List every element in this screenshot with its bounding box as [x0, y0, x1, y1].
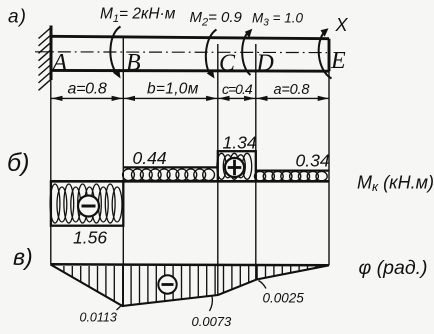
node C section line [217, 44, 219, 295]
Mk 0.44 block hatching [123, 169, 215, 181]
Mk 1.34 block outline [218, 151, 256, 181]
dim arrows at D [244, 96, 255, 101]
node A section line [50, 80, 52, 265]
phi zero line [51, 264, 330, 265]
svg-text:a=0.8: a=0.8 [274, 82, 310, 98]
svg-text:б): б) [7, 149, 29, 177]
dimension line [51, 97, 329, 99]
svg-text:M1= 2кН·м: M1= 2кН·м [100, 6, 176, 26]
svg-text:0.44: 0.44 [133, 148, 167, 168]
Mk 0.34 block top [256, 169, 329, 171]
plus sign circle in 1.34 block [225, 158, 244, 177]
dim arrows at B [112, 96, 123, 101]
dim arrow at E [318, 96, 329, 101]
moment M1 arc [110, 27, 120, 73]
Mk zero line [51, 180, 330, 183]
torque arrow at E toward X [319, 32, 332, 79]
dim arrows at C [206, 96, 217, 101]
svg-text:0.0073: 0.0073 [192, 314, 233, 329]
node D section line [255, 44, 257, 280]
dim arrows at A [52, 96, 63, 101]
svg-text:B: B [126, 50, 141, 76]
node B section line [122, 37, 124, 306]
svg-text:E: E [330, 48, 346, 74]
minus sign circle in phi diagram [158, 275, 176, 293]
leader 0.0073 [210, 296, 213, 311]
centerline of shaft [35, 51, 327, 54]
svg-text:а): а) [8, 7, 27, 28]
shaft outline [51, 36, 329, 38]
wall hatching [39, 28, 52, 91]
svg-text:0.0025: 0.0025 [263, 291, 305, 306]
svg-text:0.34: 0.34 [296, 151, 330, 171]
node E section line [328, 71, 330, 265]
leader 0.0025 [259, 281, 267, 289]
svg-text:1.56: 1.56 [73, 228, 107, 248]
Mk 1.34 block hatching [217, 153, 252, 179]
svg-text:D: D [256, 51, 274, 77]
minus sign circle in 1.56 box [78, 196, 99, 217]
phi outline polyline [51, 265, 330, 307]
svg-text:X: X [335, 15, 349, 35]
svg-text:0.0113: 0.0113 [80, 311, 117, 325]
svg-text:a=0.8: a=0.8 [68, 81, 107, 98]
wall line [50, 26, 53, 81]
moment M3 arc [242, 32, 250, 75]
svg-text:в): в) [13, 244, 33, 270]
svg-text:φ (рад.): φ (рад.) [359, 257, 428, 279]
Mk 0.44 block top [123, 166, 218, 168]
Mk 1.56 box outline [51, 181, 123, 225]
phi diagram hatching [64, 266, 316, 306]
svg-text:b=1,0м: b=1,0м [147, 81, 199, 98]
Mk 0.34 block hatching [254, 172, 327, 181]
svg-text:C: C [219, 51, 236, 77]
svg-text:c=0.4: c=0.4 [222, 81, 253, 97]
svg-text:A: A [51, 50, 68, 76]
svg-text:Mк (кН.м): Mк (кН.м) [357, 173, 434, 195]
Mk negative box hatching (coil loops) [50, 184, 122, 223]
svg-text:1.34: 1.34 [223, 133, 257, 153]
svg-text:M2= 0.9: M2= 0.9 [190, 9, 243, 29]
moment M2 arc [206, 30, 217, 74]
leader 0.0113 [117, 305, 123, 311]
